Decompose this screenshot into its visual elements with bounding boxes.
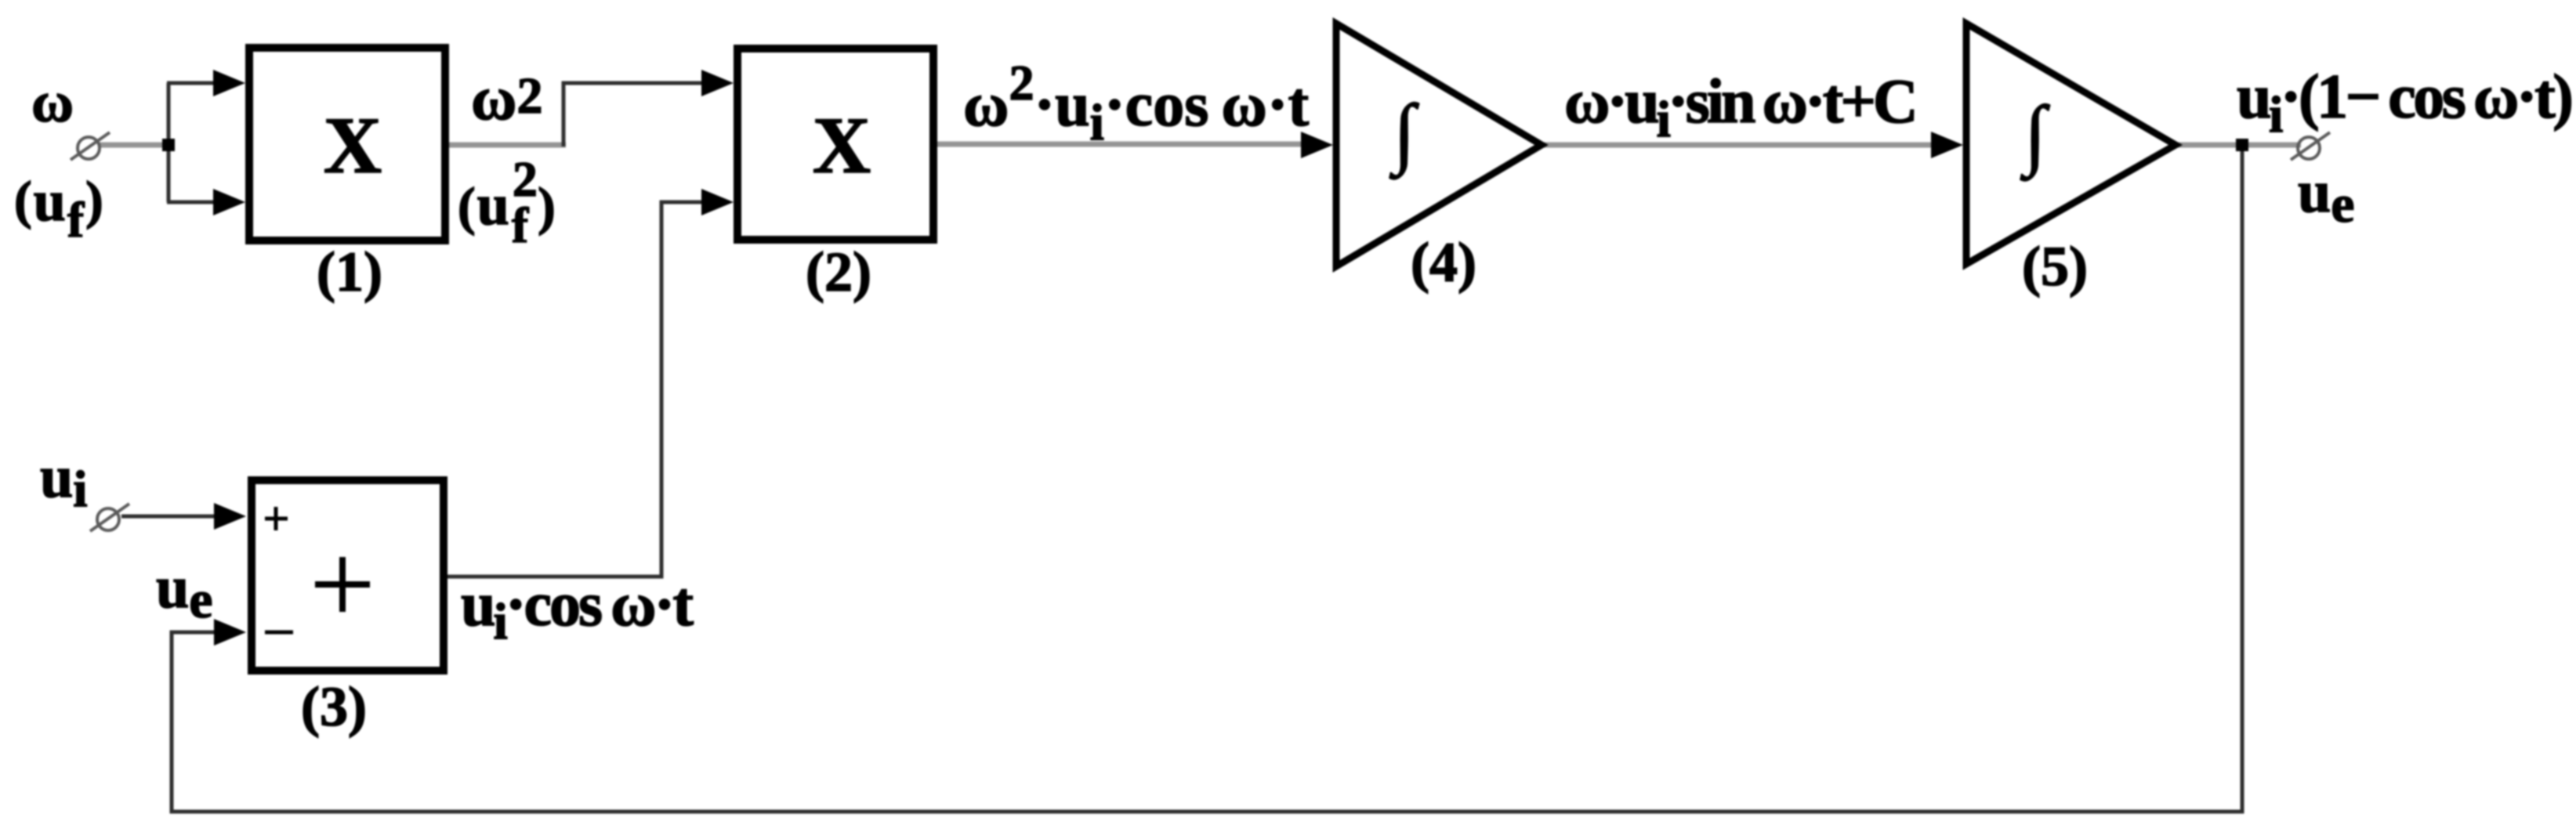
svg-text:(3): (3): [301, 675, 367, 738]
svg-text:X: X: [813, 101, 871, 190]
svg-text:ue: ue: [2298, 159, 2354, 233]
svg-text:ω·ui·sin ω·t+C: ω·ui·sin ω·t+C: [1564, 67, 1915, 148]
svg-text:ω: ω: [31, 71, 74, 135]
svg-text:(2): (2): [806, 241, 871, 303]
svg-text:ue: ue: [156, 555, 212, 629]
svg-text:(5): (5): [2022, 235, 2088, 298]
svg-text:X: X: [324, 101, 382, 190]
svg-text:ui: ui: [40, 444, 88, 518]
svg-text:(u2f): (u2f): [458, 151, 557, 253]
svg-text:(4): (4): [1411, 231, 1476, 294]
svg-text:ω2·ui·cos ω·t: ω2·ui·cos ω·t: [963, 55, 1309, 151]
svg-text:ui·(1− cos ω·t): ui·(1− cos ω·t): [2237, 63, 2571, 143]
svg-text:ui·cos ω·t: ui·cos ω·t: [461, 570, 694, 650]
svg-text:(uf): (uf): [14, 169, 105, 248]
svg-text:∫: ∫: [2020, 90, 2050, 181]
svg-text:∫: ∫: [1389, 89, 1419, 179]
svg-text:ω2: ω2: [471, 64, 542, 133]
svg-text:(1): (1): [317, 241, 382, 303]
